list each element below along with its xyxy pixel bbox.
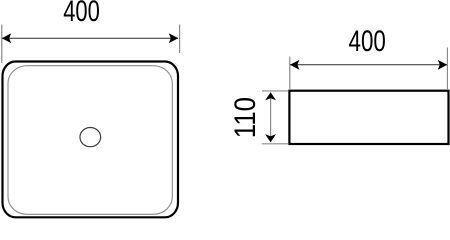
top view: inner rim line [8, 66, 172, 215]
top view: outer basin outline (rounded square) [3, 62, 179, 218]
extension line top (height dim) [262, 90, 288, 92]
dimension line 110 (side view) [270, 92, 272, 142]
side view: basin body rectangle [289, 91, 448, 144]
svg-text:110: 110 [229, 97, 262, 138]
svg-text:400: 400 [349, 25, 386, 58]
arrowhead up (height dim) [265, 92, 276, 100]
extension line right (top view dim) [179, 25, 181, 54]
dimension line 400 (top view) [2, 37, 178, 39]
extension line left (side view width dim) [289, 57, 291, 90]
svg-text:400: 400 [63, 0, 100, 28]
extension line left (top view dim) [1, 25, 3, 64]
arrowhead down (height dim) [265, 134, 276, 142]
arrowhead right (top view dim) [169, 33, 178, 43]
arrowhead left (side view width dim) [290, 60, 299, 70]
top view: drain hole circle [80, 128, 101, 147]
extension line right (side view width dim) [446, 48, 448, 90]
extension line bottom (height dim) [262, 143, 288, 145]
arrowhead right (side view width dim) [438, 60, 447, 70]
dimension line 400 (side view) [290, 64, 447, 66]
arrowhead left (top view dim) [2, 33, 11, 43]
